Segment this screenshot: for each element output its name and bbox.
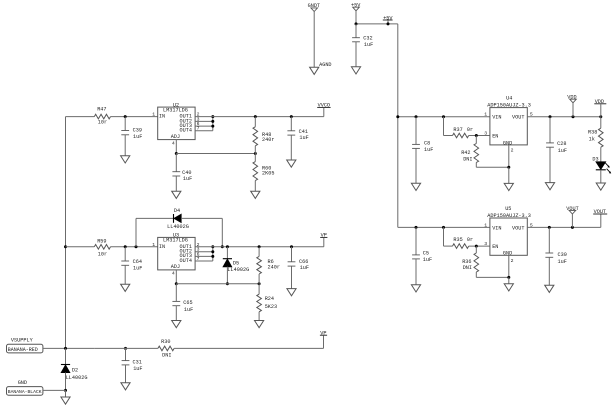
svg-text:2K05: 2K05 <box>262 171 274 177</box>
junction rail D5 <box>226 245 229 248</box>
svg-text:C40: C40 <box>182 170 191 176</box>
wire R47 to U2 <box>111 116 158 118</box>
wire U3 OUT4 finger <box>195 260 213 262</box>
net label VOUT <box>593 209 607 215</box>
pin 1 U2 <box>152 112 155 118</box>
junction U3 OUT1 <box>211 245 214 248</box>
wire C5 top <box>415 227 417 255</box>
wire BANANA-BLACK to D2 <box>43 389 66 391</box>
wire BANANA-RED to rail <box>43 347 94 349</box>
svg-text:0r: 0r <box>467 237 473 243</box>
wire U3 ADJ link <box>176 283 259 285</box>
svg-text:240r: 240r <box>268 265 280 271</box>
svg-text:IN: IN <box>159 114 165 120</box>
svg-text:D4: D4 <box>174 208 180 214</box>
wire R60 top stub <box>254 154 256 162</box>
wire U2 OUT4 finger <box>195 130 213 132</box>
svg-text:240r: 240r <box>262 137 274 143</box>
wire D2 bottom <box>65 373 67 391</box>
svg-text:D2: D2 <box>72 368 78 374</box>
connector J VSUPPLY BANANA-RED <box>7 338 43 353</box>
svg-text:VIN: VIN <box>492 115 501 121</box>
wire +5V main vertical <box>397 24 399 228</box>
wire U5 VOUT rail <box>527 226 601 228</box>
resistor R30 <box>158 339 174 359</box>
junction C64 <box>124 245 127 248</box>
svg-text:R42: R42 <box>461 150 470 156</box>
svg-text:LL4002G: LL4002G <box>167 224 189 230</box>
wire U3 OUT3 finger <box>195 255 213 257</box>
wire C8 bottom <box>415 148 417 183</box>
svg-text:R30: R30 <box>161 339 170 345</box>
junction OUT1 <box>211 115 214 118</box>
junction D5 bottom <box>226 282 229 285</box>
junction EN R42 <box>475 134 478 137</box>
svg-text:10r: 10r <box>98 252 107 258</box>
ground below C8 <box>411 183 420 190</box>
capacitor C65 <box>172 300 193 313</box>
wire D4 top right <box>181 217 222 219</box>
capacitor C40 <box>172 170 192 182</box>
resistor R36 <box>462 253 478 272</box>
svg-text:1uF: 1uF <box>423 257 432 263</box>
capacitor C5 <box>412 250 432 263</box>
svg-text:0r: 0r <box>467 127 473 133</box>
ground below C66 <box>287 289 296 296</box>
wire +5V horizontal rail <box>356 23 398 25</box>
capacitor C64 <box>121 259 142 271</box>
pin 5 U4 <box>530 112 533 118</box>
wire ADJ link <box>176 153 255 155</box>
pin 1 U3 <box>152 242 155 248</box>
pin 5 U5 <box>530 222 533 228</box>
svg-text:ADP150AUJZ-3.3: ADP150AUJZ-3.3 <box>487 213 531 219</box>
svg-text:R37: R37 <box>453 127 462 133</box>
junction R48 R60 <box>254 152 257 155</box>
wire VVCO stub <box>323 108 325 117</box>
wire R36 bottom <box>476 272 509 277</box>
ground below C40 <box>172 191 181 198</box>
svg-text:VSUPPLY: VSUPPLY <box>11 338 34 344</box>
net label VP lower <box>320 330 327 336</box>
svg-text:GND: GND <box>503 251 512 257</box>
wire R42 top stub <box>475 136 477 144</box>
wire R30 to VP <box>174 347 323 349</box>
ground below C31 <box>121 383 130 390</box>
svg-text:R24: R24 <box>265 296 274 302</box>
svg-text:1: 1 <box>152 112 155 118</box>
net label +5V <box>383 15 394 21</box>
wire U5 GND to ground <box>508 277 510 283</box>
junction +5V at C32 <box>355 22 358 25</box>
resistor R6 <box>257 256 280 274</box>
ground below C30 <box>545 285 554 292</box>
junction EN R36 <box>475 245 478 248</box>
wire D5 top <box>226 247 228 259</box>
wire GNDT to AGND <box>313 11 315 67</box>
svg-text:C32: C32 <box>363 36 372 42</box>
junction U5 rail at R35 <box>442 226 445 229</box>
svg-text:1uF: 1uF <box>133 266 142 272</box>
wire U4 VIN rail <box>398 116 490 118</box>
svg-text:GND: GND <box>503 140 512 146</box>
wire D5 bottom <box>226 267 228 284</box>
connector J GND BANANA-BLACK <box>7 380 43 395</box>
svg-text:1uF: 1uF <box>133 134 142 140</box>
pin 3 U2 <box>197 116 200 122</box>
wire R24 top stub <box>258 284 260 295</box>
wire VSUPPLY vertical <box>65 117 67 349</box>
resistor R24 <box>257 294 277 312</box>
svg-text:LM317LDG: LM317LDG <box>163 238 188 244</box>
junction U4 rail at C8 <box>415 115 418 118</box>
ground below C32 <box>351 67 360 74</box>
wire D2 top <box>65 348 67 364</box>
junction VOUT at R38 <box>599 115 602 118</box>
junction rail R48 <box>254 115 257 118</box>
wire D4 left vertical <box>135 218 137 246</box>
capacitor C28 <box>546 141 567 154</box>
pin 2 U5 <box>511 258 514 264</box>
junction rail R6 <box>258 245 261 248</box>
wire R35 to EN <box>469 245 490 247</box>
junction rail C66 <box>290 245 293 248</box>
wire D4 top left <box>136 217 174 219</box>
wire VP stub <box>323 238 325 247</box>
resistor R35 <box>453 237 474 248</box>
wire U2 OUT3 finger <box>195 125 213 127</box>
ground below C28 <box>545 183 554 190</box>
capacitor C30 <box>545 252 566 265</box>
junction OUT2 <box>211 120 214 123</box>
wire VP lower stub <box>323 336 325 349</box>
wire C30 bottom <box>548 257 550 285</box>
wire R37 branch down <box>444 117 453 136</box>
wire U2 VOUT rail <box>195 116 324 118</box>
pin 7 U3 <box>197 256 200 262</box>
resistor R59 <box>94 239 110 258</box>
svg-text:VOUT: VOUT <box>512 115 524 121</box>
svg-text:C66: C66 <box>299 259 308 265</box>
resistor R60 <box>253 162 274 181</box>
wire D4 right vertical <box>221 218 223 246</box>
junction D4 left <box>135 245 138 248</box>
wire U4 VOUT rail <box>527 116 601 118</box>
wire rail to R30 <box>94 347 158 349</box>
svg-text:C5: C5 <box>423 250 429 256</box>
pin 3 U5 <box>484 241 487 247</box>
wire C40 bottom <box>175 176 177 191</box>
svg-text:R35: R35 <box>453 237 462 243</box>
wire C41 bottom <box>290 135 292 160</box>
ground below U4 <box>504 183 513 190</box>
wire U5 VIN rail <box>398 226 490 228</box>
wire U2 OUT bus vertical <box>212 117 214 131</box>
junction VOUT2 at C30 <box>548 226 551 229</box>
svg-text:AGND: AGND <box>319 62 331 68</box>
pin 6 U2 <box>197 121 200 127</box>
net label VVCO <box>317 103 330 109</box>
svg-text:EN: EN <box>492 133 498 139</box>
wire R35 branch down <box>444 227 453 246</box>
svg-text:1uF: 1uF <box>300 265 309 271</box>
svg-text:LL4002G: LL4002G <box>227 267 249 273</box>
wire C31 bottom <box>125 365 127 383</box>
junction U4 rail at main vertical <box>396 115 399 118</box>
svg-text:1: 1 <box>152 242 155 248</box>
pin 1 U5 <box>484 222 487 228</box>
pin 4 U3 <box>172 271 175 277</box>
ground below U5 <box>504 284 513 291</box>
wire R37 to EN <box>469 135 490 137</box>
ground AGND label <box>319 62 331 68</box>
junction supply R59 <box>64 245 67 248</box>
wire VOUT port stub <box>571 214 573 227</box>
junction OUT3 <box>211 125 214 128</box>
LED D3 <box>592 157 611 174</box>
wire R42 bottom <box>476 163 509 168</box>
capacitor C8 <box>412 140 433 153</box>
svg-text:R59: R59 <box>97 239 106 245</box>
wire C28 top <box>549 117 551 143</box>
ground below D3 <box>596 183 605 190</box>
wire U5 GND pin <box>508 255 510 277</box>
junction ADJ <box>175 152 178 155</box>
svg-text:EN: EN <box>492 244 498 250</box>
junction U3 OUT2 <box>211 250 214 253</box>
wire U3 ADJ down <box>175 270 177 284</box>
power port GNDT <box>308 3 320 11</box>
wire C66 bottom <box>291 266 293 289</box>
wire R48 bottom stub <box>254 146 256 154</box>
ground below C41 <box>287 160 296 167</box>
wire U4 GND pin <box>508 145 510 167</box>
wire +5V vertical stub <box>355 11 357 24</box>
svg-text:C41: C41 <box>299 129 308 135</box>
wire U4 GND to ground <box>508 167 510 183</box>
svg-text:VOUT: VOUT <box>512 225 524 231</box>
svg-text:1uF: 1uF <box>558 259 567 265</box>
wire R38 to D3 <box>600 147 602 162</box>
junction U4 GND <box>507 166 510 169</box>
wire VDD label stub <box>600 104 602 117</box>
wire U3 OUT2 finger <box>195 251 213 253</box>
wire C8 top <box>415 117 417 145</box>
ground below R60 <box>251 191 260 198</box>
wire R6 bottom stub <box>258 274 260 284</box>
resistor R48 <box>253 127 274 146</box>
resistor R38 <box>588 128 603 147</box>
junction U3 ADJ <box>175 282 178 285</box>
regulator U2 LM317LDG body <box>158 102 195 140</box>
wire D3 to ground <box>600 170 602 183</box>
ground below C5 <box>411 285 420 292</box>
svg-text:OUT4: OUT4 <box>180 128 192 134</box>
wire R24 to ground <box>258 312 260 321</box>
svg-text:U5: U5 <box>505 206 511 212</box>
junction C39 <box>124 115 127 118</box>
resistor R37 <box>453 127 474 138</box>
wire U2 ADJ down <box>175 140 177 154</box>
wire C5 bottom <box>415 259 417 285</box>
svg-text:BANANA-BLACK: BANANA-BLACK <box>8 389 42 395</box>
svg-text:DNI: DNI <box>463 265 472 271</box>
svg-text:BANANA-RED: BANANA-RED <box>8 347 38 353</box>
wire C39 bottom <box>124 135 126 156</box>
svg-text:C64: C64 <box>133 259 142 265</box>
svg-text:5K23: 5K23 <box>265 304 277 310</box>
resistor R47 <box>94 106 110 125</box>
svg-text:DNI: DNI <box>162 353 171 359</box>
wire C31 top <box>125 348 127 360</box>
ground bottom <box>61 397 70 404</box>
pin 1 U4 <box>484 112 487 118</box>
power port VDD <box>567 95 576 103</box>
wire VOUT label stub <box>600 214 602 227</box>
svg-text:10r: 10r <box>98 119 107 125</box>
pin 3 U3 <box>197 247 200 253</box>
capacitor C41 <box>287 129 308 141</box>
svg-text:GND: GND <box>18 380 27 386</box>
wire U3 OUT bus vertical <box>212 247 214 261</box>
net label VDD <box>594 99 606 105</box>
pin 2 U2 <box>197 112 200 118</box>
wire C64 top <box>124 247 126 261</box>
svg-text:1uF: 1uF <box>558 148 567 154</box>
svg-text:1: 1 <box>484 112 487 118</box>
svg-text:R38: R38 <box>588 130 597 136</box>
junction +5V label <box>387 22 390 25</box>
wire to R47 <box>66 116 95 118</box>
wire C40 top <box>175 154 177 172</box>
svg-text:C8: C8 <box>424 140 430 146</box>
ground below C64 <box>121 284 130 291</box>
wire +5V label stub <box>387 20 389 24</box>
pin 7 U2 <box>197 126 200 132</box>
junction U5 GND <box>507 276 510 279</box>
capacitor C31 <box>122 360 143 373</box>
svg-text:LL4002G: LL4002G <box>66 375 88 381</box>
svg-text:1uF: 1uF <box>183 176 192 182</box>
svg-text:DNI: DNI <box>463 157 472 163</box>
ground below R24 <box>255 321 264 328</box>
svg-text:1k: 1k <box>589 136 595 142</box>
junction rail C41 <box>290 115 293 118</box>
wire U3 VOUT rail <box>195 246 324 248</box>
svg-text:ADJ: ADJ <box>171 264 180 270</box>
wire U2 OUT2 finger <box>195 120 213 122</box>
net label VP <box>320 233 327 239</box>
svg-text:2: 2 <box>511 258 514 264</box>
junction U3 OUT3 <box>211 255 214 258</box>
pin 2 U3 <box>197 242 200 248</box>
capacitor C39 <box>121 128 142 140</box>
svg-text:2: 2 <box>511 148 514 154</box>
wire C32 bottom <box>355 42 357 67</box>
svg-text:3: 3 <box>484 130 487 136</box>
wire C32 top <box>355 24 357 38</box>
wire R38 top stub <box>600 117 602 128</box>
junction D4 right <box>221 245 224 248</box>
svg-text:OUT4: OUT4 <box>180 258 192 264</box>
junction R6 R24 <box>258 282 261 285</box>
power port +5V <box>351 3 361 11</box>
regulator U4 ADP150AUJZ-3.3 body <box>487 95 531 146</box>
wire C65 top <box>175 284 177 302</box>
junction VOUT at C28 <box>549 115 552 118</box>
pin 2 U4 <box>511 148 514 154</box>
junction D2 BANANA-BLACK <box>64 389 67 392</box>
wire C66 top <box>291 247 293 262</box>
wire R60 to ground <box>254 181 256 192</box>
svg-text:ADP150AUJZ-3.3: ADP150AUJZ-3.3 <box>487 103 531 109</box>
capacitor C66 <box>288 259 309 271</box>
svg-text:U4: U4 <box>506 95 512 101</box>
diode D5 LL4002G <box>223 259 249 273</box>
wire C64 bottom <box>124 265 126 284</box>
ground AGND symbol <box>310 67 319 74</box>
svg-text:C30: C30 <box>558 252 567 258</box>
junction supply bottom <box>64 347 67 350</box>
wire to R59 <box>66 246 95 248</box>
ground below C39 <box>121 156 130 163</box>
svg-text:4: 4 <box>172 140 175 146</box>
wire C39 top <box>124 117 126 131</box>
svg-text:R47: R47 <box>97 106 106 112</box>
diode D4 LL4002G <box>167 208 189 230</box>
svg-text:C39: C39 <box>133 128 142 134</box>
junction VOUT at VDD port <box>572 115 575 118</box>
regulator U5 ADP150AUJZ-3.3 body <box>487 206 531 257</box>
svg-text:C65: C65 <box>183 300 192 306</box>
wire C41 top <box>290 117 292 131</box>
junction U5 rail at C5 <box>415 226 418 229</box>
wire C30 top <box>548 227 550 253</box>
svg-text:1uF: 1uF <box>424 147 433 153</box>
wire C28 bottom <box>549 147 551 182</box>
pin 3 U4 <box>484 130 487 136</box>
svg-text:4: 4 <box>172 271 175 277</box>
junction C31 <box>124 347 127 350</box>
svg-text:1uF: 1uF <box>133 366 142 372</box>
wire C65 bottom <box>175 306 177 321</box>
svg-text:IN: IN <box>159 244 165 250</box>
capacitor C32 <box>352 36 373 48</box>
svg-text:3: 3 <box>484 241 487 247</box>
wire R48 top stub <box>254 117 256 127</box>
svg-text:1uF: 1uF <box>184 307 193 313</box>
wire to bottom ground <box>65 390 67 397</box>
junction VOUT2 at port <box>571 226 574 229</box>
diode D2 LL4002G <box>61 365 88 381</box>
wire R6 top stub <box>258 247 260 257</box>
ground below C65 <box>172 321 181 328</box>
pin 6 U3 <box>197 251 200 257</box>
wire R59 to U3 <box>111 246 158 248</box>
wire R36 top stub <box>475 246 477 253</box>
resistor R42 <box>461 144 478 163</box>
wire VDD port stub <box>572 103 574 117</box>
power port VOUT <box>566 206 578 214</box>
svg-text:LM317LDG: LM317LDG <box>163 107 188 113</box>
svg-text:1: 1 <box>484 222 487 228</box>
svg-text:C28: C28 <box>557 141 566 147</box>
regulator U3 LM317LDG body <box>158 233 195 271</box>
junction U4 rail at R37 <box>442 115 445 118</box>
svg-text:D5: D5 <box>233 260 239 266</box>
svg-text:1uF: 1uF <box>299 135 308 141</box>
svg-text:VIN: VIN <box>492 225 501 231</box>
